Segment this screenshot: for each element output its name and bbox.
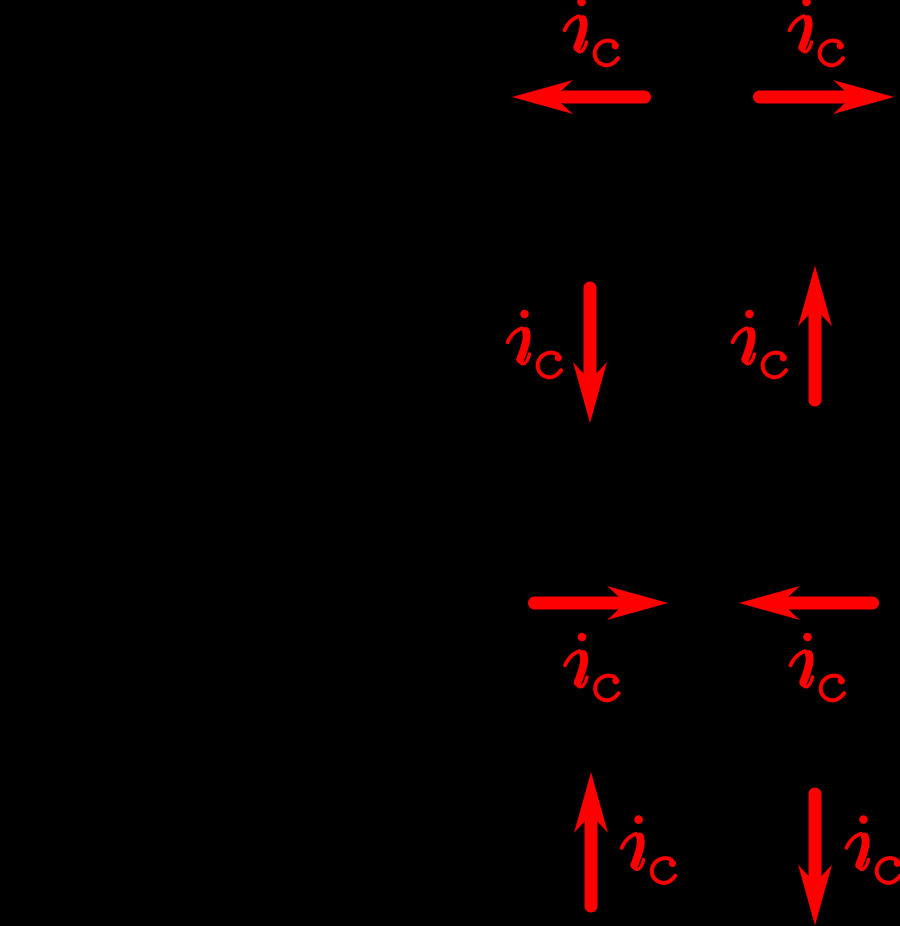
current arrow i_c (third row left, pointing right) [535,586,669,620]
capacitor C3 (third figure, horizontal) [695,583,711,623]
label i_c (third row left) [565,633,619,701]
wire C4 leads [701,800,705,896]
wire C2 leads [698,284,702,380]
current arrow i_c (top-left, pointing left) [512,80,645,114]
capacitor C2 (second figure) [680,324,720,340]
current arrow i_c (third row right, pointing left) [739,586,873,620]
current arrow i_c (second row right, pointing up) [798,266,832,401]
label i_c (bottom-left) [622,815,676,883]
capacitor C4 (bottom figure) [683,840,723,856]
label i_c (second row left) [508,310,562,378]
current arrow i_c (top-right, pointing right) [760,80,895,114]
label i_c (second row right) [733,310,787,378]
wire C1 left lead [651,95,694,99]
label i_c (third row right) [791,633,845,701]
wire C1 right lead [710,95,753,99]
current arrow i_c (bottom-right, pointing down) [798,794,832,926]
label i_c (bottom-right) [847,815,900,883]
current arrow i_c (second row left, pointing down) [573,288,607,423]
capacitor C1 (top figure, horizontal) [694,77,710,117]
wire C3 right lead [711,601,740,605]
wire C3 left lead [666,601,695,605]
current arrow i_c (bottom-left, pointing up) [574,772,608,906]
label i_c (top-left) [565,0,619,65]
label i_c (top-right) [790,0,844,65]
